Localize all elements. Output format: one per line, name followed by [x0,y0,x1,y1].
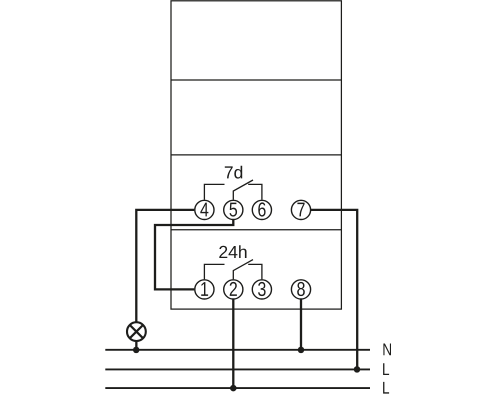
terminal 4 [195,200,214,219]
junction wire 2 to L2 [230,385,237,392]
switch S2 contact 3 bracket [248,264,262,279]
device divider 2 [171,154,341,156]
terminal 3 [252,280,271,299]
line L1 [105,368,370,370]
device outline box [171,1,341,309]
junction wire 8 to N [298,347,305,354]
switch S1 contact 4 bracket [204,184,224,199]
device divider 1 [171,79,341,81]
terminal 6 [252,200,271,219]
terminal 1 [195,280,214,299]
switch S1 contact 6 bracket [248,184,262,199]
wire terminal 8 to line N [300,300,302,350]
label 7d [225,166,242,179]
terminal 8 [291,280,310,299]
wire terminal 2 to line L2 [232,300,234,389]
junction lamp to N [133,347,140,354]
line N [105,349,370,351]
wire terminal 5 to terminal 1 [155,220,233,290]
label L2 [383,382,389,394]
switch S1 arm pin 5 [233,180,253,200]
device divider 3 [171,229,341,231]
lamp E1 [127,322,146,350]
wire terminal 7 to line L1 [311,210,357,370]
terminal 5 [224,200,243,219]
line L2 [105,387,370,389]
label 24h [219,245,246,258]
wire terminal 4 to lamp [136,210,194,323]
label L1 [383,363,389,375]
junction wire 7 to L1 [354,366,361,373]
label N [383,344,391,356]
terminal 7 [291,200,310,219]
switch S2 arm pin 2 [233,260,253,280]
terminal 2 [224,280,243,299]
switch S2 contact 1 bracket [204,264,224,279]
